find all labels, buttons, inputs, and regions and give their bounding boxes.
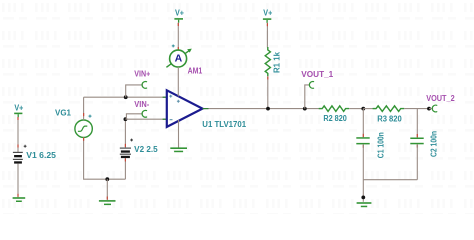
wire V+ to V1 top xyxy=(17,117,19,152)
pin VIN- hook xyxy=(142,110,147,117)
power V+ (left) xyxy=(14,104,23,118)
pin tick xyxy=(106,197,108,200)
svg-text:V+: V+ xyxy=(14,104,23,113)
battery V1 xyxy=(13,145,27,164)
ground (below C1) xyxy=(357,202,372,207)
pin tick xyxy=(124,159,126,162)
capacitor C1 100n xyxy=(356,137,369,144)
wire C1 bottom to ground xyxy=(362,144,364,201)
power V+ (top middle) xyxy=(174,9,184,23)
svg-text:VOUT_2: VOUT_2 xyxy=(426,94,455,103)
ammeter AM1 xyxy=(166,45,191,68)
wire junction to ground xyxy=(106,179,108,200)
pin VOUT_2 hook xyxy=(432,105,437,112)
pin tick xyxy=(362,145,364,148)
pin tick xyxy=(177,47,179,50)
wire R1 to output line xyxy=(267,76,269,108)
ground (below V1) xyxy=(13,197,26,202)
pin tick xyxy=(267,77,269,80)
svg-text:V1 6.25: V1 6.25 xyxy=(26,151,56,160)
wire noninverting input line xyxy=(84,96,167,98)
ground (below VG1/V2) xyxy=(99,200,116,205)
pin tick xyxy=(124,144,126,147)
battery V2 xyxy=(120,139,133,159)
wire VOUT_1 tap xyxy=(305,85,310,109)
node R1 junction xyxy=(266,107,270,111)
resistor R1 1k xyxy=(265,47,270,76)
pin tick xyxy=(17,145,19,148)
wire C2 top riser xyxy=(416,109,418,138)
svg-text:V+: V+ xyxy=(263,8,272,17)
wire V2 bottom riser xyxy=(124,158,126,179)
ground (below U1) xyxy=(170,147,187,152)
pin tick xyxy=(416,145,418,148)
svg-text:VG1: VG1 xyxy=(55,109,72,118)
pin VIN+ hook xyxy=(142,81,147,88)
svg-text:VIN+: VIN+ xyxy=(134,69,150,78)
wire R3 to VOUT_2 xyxy=(404,108,429,110)
resistor R2 820 xyxy=(319,106,349,112)
op-amp output pin stub xyxy=(203,108,209,110)
pin tick xyxy=(17,194,19,197)
svg-text:AM1: AM1 xyxy=(188,67,203,76)
svg-text:V2 2.5: V2 2.5 xyxy=(134,145,158,154)
wire VIN- tap xyxy=(126,114,142,119)
pin tick xyxy=(83,113,85,116)
svg-text:C1 100n: C1 100n xyxy=(376,132,385,158)
pin tick xyxy=(362,134,364,137)
node VIN- junction xyxy=(124,117,128,121)
pin tick xyxy=(83,138,85,141)
capacitor C2 100n xyxy=(410,138,423,145)
node C1 ground junction xyxy=(361,196,365,200)
svg-text:VIN-: VIN- xyxy=(134,100,149,109)
wire VIN+ tap xyxy=(126,85,143,97)
generator VG1 xyxy=(75,115,92,138)
svg-text:VOUT_1: VOUT_1 xyxy=(301,70,333,79)
pin tick xyxy=(17,117,19,120)
wire V1 bottom to ground xyxy=(17,164,19,198)
svg-text:V+: V+ xyxy=(175,9,184,18)
node VIN+ junction xyxy=(124,95,128,99)
wire node to R3 xyxy=(363,108,376,110)
wire ammeter to op-amp V+ pin xyxy=(177,67,179,96)
power V+ (right) xyxy=(263,8,273,23)
pin tick xyxy=(416,134,418,137)
pin tick xyxy=(266,23,268,26)
wire V+ to R1 xyxy=(266,23,268,48)
svg-text:C2 100n: C2 100n xyxy=(430,131,439,157)
op-amp U1 inverting pin stub xyxy=(163,118,167,120)
wire C2 bottom riser xyxy=(416,144,418,179)
wire op-amp to ground xyxy=(178,120,180,148)
wire VG1 bottom to ground corner xyxy=(84,137,126,179)
node VOUT_1 junction xyxy=(303,107,307,111)
op-amp U1 input pin stubs xyxy=(163,96,167,98)
op-amp U1 xyxy=(167,90,203,127)
svg-text:R1 1k: R1 1k xyxy=(272,51,281,73)
pin VOUT_1 hook xyxy=(309,81,313,88)
pin tick xyxy=(177,23,179,26)
node C1/R3 junction xyxy=(361,107,365,111)
wire inverting input line xyxy=(125,118,166,120)
wire VG1 top riser xyxy=(83,97,85,120)
svg-text:A: A xyxy=(175,53,183,65)
svg-text:R3 820: R3 820 xyxy=(377,114,402,123)
node ground junction xyxy=(105,177,109,181)
wire op-amp output xyxy=(203,108,323,110)
wire bottom link C1 to C2 xyxy=(363,179,417,181)
svg-text:R2 820: R2 820 xyxy=(323,114,347,123)
wire C1 riser xyxy=(362,109,364,138)
wire VOUT_2 stub xyxy=(429,108,433,110)
wire V2 top to inverting node xyxy=(124,119,126,147)
svg-text:U1 TLV1701: U1 TLV1701 xyxy=(202,120,246,129)
node VOUT_2 junction xyxy=(427,107,431,111)
resistor R3 820 xyxy=(373,106,405,112)
wire V+ to ammeter xyxy=(177,23,179,51)
wire R2 to node xyxy=(349,108,363,110)
